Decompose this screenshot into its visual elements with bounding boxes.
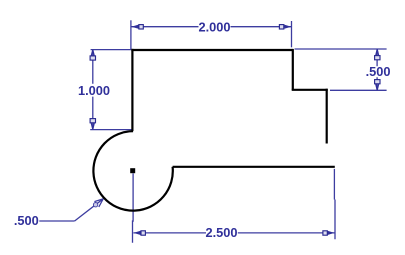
dimension 1.000 dimension line bbox=[92, 50, 94, 129]
profile left vertical line bbox=[131, 49, 133, 131]
dimension 1.000 bottom arrowhead bbox=[90, 119, 95, 130]
profile right vertical line bbox=[326, 89, 328, 144]
dimension .500 right dimension line bbox=[376, 49, 378, 90]
dimension 2.000 extension line right bbox=[291, 21, 293, 47]
dimension .500 right top arrowhead bbox=[375, 49, 380, 59]
dimension 2.500 centerline extension bbox=[132, 173, 135, 242]
svg-text:2.500: 2.500 bbox=[205, 225, 237, 240]
dimension 2.500 right arrowhead bbox=[323, 231, 335, 235]
dimension 1.000 extension line bottom bbox=[90, 129, 132, 131]
dimension 2.500 extension line right bbox=[333, 169, 336, 239]
dimension 2.500 dimension line bbox=[133, 232, 334, 234]
dimension 2.000 dimension line bbox=[131, 26, 291, 28]
profile bottom horizontal line bbox=[173, 166, 335, 168]
dimension .500 right extension line top bbox=[295, 48, 387, 50]
dimension 2.000 right arrowhead bbox=[279, 25, 291, 29]
dimension 2.500 left arrowhead bbox=[133, 231, 145, 235]
radius dimension .500 leader grip circle bbox=[93, 203, 97, 207]
dimension .500 right extension line bottom bbox=[330, 89, 387, 91]
svg-text:1.000: 1.000 bbox=[78, 83, 110, 98]
radius dimension .500 leader horizontal segment bbox=[39, 220, 74, 222]
dimension 1.000 top arrowhead bbox=[90, 50, 95, 60]
profile step vertical line bbox=[292, 49, 294, 90]
radius dimension .500 leader diagonal segment bbox=[75, 199, 104, 221]
svg-text:.500: .500 bbox=[14, 213, 39, 228]
profile top horizontal line bbox=[131, 49, 292, 51]
dimension 1.000 extension line top bbox=[91, 49, 131, 51]
profile step horizontal line bbox=[292, 89, 328, 91]
arc center point mark bbox=[130, 168, 135, 173]
profile arc (circle R .500) bbox=[93, 131, 172, 210]
dimension 2.000 extension line left bbox=[130, 20, 132, 49]
dimension .500 right bottom arrowhead bbox=[375, 80, 380, 90]
dimension 2.000 left arrowhead bbox=[131, 25, 143, 29]
svg-text:2.000: 2.000 bbox=[198, 20, 230, 35]
svg-text:.500: .500 bbox=[366, 64, 391, 79]
radius dimension .500 open arrowhead bbox=[94, 199, 103, 207]
